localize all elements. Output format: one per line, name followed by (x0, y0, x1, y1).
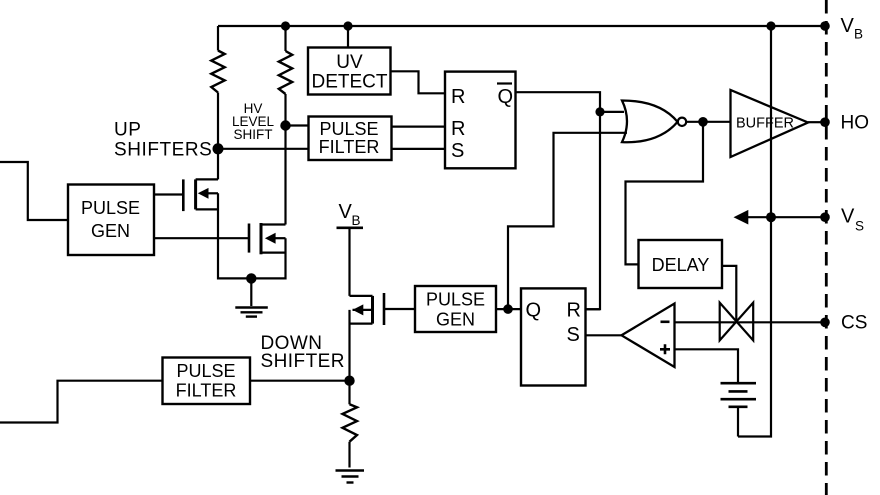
node HV level shift (280, 120, 290, 130)
wire CS line through switch to comparator (675, 321, 825, 323)
svg-text:R: R (451, 86, 465, 108)
transistor M1 (up shifter) (183, 149, 251, 279)
node Qbar to NOR (595, 107, 604, 116)
svg-text:UP: UP (114, 120, 142, 141)
wire latch U2 Q output to pulse gen (496, 308, 521, 310)
svg-text:SHIFT: SHIFT (234, 127, 273, 142)
svg-text:DELAY: DELAY (652, 255, 710, 275)
wire NOR output to buffer (687, 121, 731, 123)
svg-text:SHIFTER: SHIFTER (261, 351, 345, 372)
ground symbol (up shifters) (235, 308, 267, 317)
wire UV detect output to latch R (391, 71, 446, 93)
node UP shifters (213, 143, 224, 154)
svg-text:V: V (841, 15, 855, 37)
node rail-UV (343, 21, 352, 30)
dashed IC boundary (825, 0, 828, 495)
svg-text:V: V (841, 206, 855, 228)
VB terminal above M3 (337, 201, 364, 228)
wire to ground (250, 278, 252, 306)
DELAY block (639, 240, 723, 288)
transistor M2 (up shifter) (249, 223, 286, 278)
wire comparator output to latch U2 S (586, 334, 622, 336)
pin label VB (841, 15, 864, 42)
svg-text:SHIFTERS: SHIFTERS (114, 140, 212, 161)
wire Qbar output (516, 92, 601, 309)
node down shifter output (344, 376, 354, 386)
wire buffer supply from VB rail (770, 26, 772, 217)
svg-text:BUFFER: BUFFER (736, 116, 794, 132)
PULSE FILTER block (lower) (163, 358, 251, 405)
label HV LEVEL SHIFT (232, 101, 275, 142)
svg-text:S: S (567, 324, 580, 346)
latch U2 (Q / R S) (521, 288, 586, 385)
blanking switch (bowtie) (720, 303, 754, 341)
wire pulse gen to M1 gate (154, 193, 183, 195)
svg-text:PULSE: PULSE (319, 119, 378, 139)
latch U1 (R R S / Qbar) (445, 72, 516, 169)
node VS-supply junction (766, 212, 776, 222)
label UP SHIFTERS (114, 120, 212, 161)
node CS pin (820, 318, 830, 328)
svg-text:UV: UV (336, 52, 363, 73)
wire NOR input 2 from Q of latch U2 (508, 133, 627, 309)
wire LIN input to pulse filter 2 (0, 381, 163, 423)
svg-text:V: V (339, 201, 353, 223)
wire buffer output to HO (808, 121, 824, 123)
wire DELAY output to blanking switch (722, 266, 736, 322)
svg-text:DETECT: DETECT (312, 72, 388, 93)
battery reference (721, 383, 757, 436)
wire pulse gen to M3 gate (384, 308, 415, 310)
svg-text:B: B (854, 27, 863, 42)
node VB pin (820, 21, 830, 31)
wire VS line (746, 216, 825, 218)
node HO pin (820, 117, 830, 127)
svg-text:CS: CS (841, 313, 867, 334)
PULSE GEN block (left) (68, 185, 154, 256)
NOR gate U3 (622, 101, 686, 143)
svg-text:Q: Q (498, 86, 514, 108)
svg-text:GEN: GEN (436, 310, 475, 330)
svg-text:FILTER: FILTER (319, 137, 380, 157)
wire comparator plus input to reference (675, 349, 739, 383)
wire HV node to pulse filter (286, 124, 308, 126)
svg-text:FILTER: FILTER (176, 381, 237, 401)
wire pulse gen to M2 gate (154, 237, 249, 239)
svg-text:PULSE: PULSE (176, 361, 235, 381)
label DOWN SHIFTER (261, 333, 345, 372)
wire NOR input 1 (600, 111, 624, 113)
wire UP node to pulse filter (218, 148, 308, 150)
transistor M3 (down shifter) (350, 228, 385, 381)
wire HIN input to pulse gen 1 (0, 162, 68, 220)
wire pulse filter to latch R (391, 125, 446, 127)
wire UV detect supply (347, 26, 349, 48)
svg-text:R: R (567, 300, 581, 322)
wire feedback NOR output to DELAY (626, 122, 704, 265)
resistor R2 (279, 26, 292, 225)
wire pulse filter to latch S (391, 148, 446, 150)
wire VS rail down to battery return (738, 217, 771, 436)
node rail-buffer supply (766, 21, 775, 30)
ground symbol (down shifter) (336, 471, 365, 483)
svg-text:S: S (451, 140, 464, 162)
node VS pin (820, 212, 830, 222)
svg-text:PULSE: PULSE (426, 290, 485, 310)
svg-text:HO: HO (841, 113, 870, 134)
node rail-R2 (281, 21, 290, 30)
UV DETECT block (308, 48, 391, 95)
svg-text:GEN: GEN (91, 221, 130, 241)
PULSE GEN block (right) (415, 286, 496, 332)
VB top rail wire (218, 25, 826, 27)
node M1/M2 source junction (246, 273, 256, 283)
resistor R1 (211, 26, 224, 149)
wire latch U2 R input (586, 308, 601, 310)
node NOR output (698, 117, 708, 127)
comparator U5 (622, 304, 675, 368)
arrow VS to load (734, 210, 749, 225)
node Q output (503, 304, 513, 314)
buffer U4 (731, 90, 809, 157)
resistor R3 (343, 381, 358, 468)
svg-text:Q: Q (526, 300, 542, 322)
svg-text:PULSE: PULSE (81, 198, 140, 218)
wire pulse filter 2 to node (250, 380, 350, 382)
svg-text:S: S (855, 219, 864, 234)
svg-text:B: B (352, 213, 361, 228)
pin label VS (841, 206, 864, 234)
svg-text:R: R (451, 118, 465, 140)
PULSE FILTER block (upper) (309, 117, 392, 161)
